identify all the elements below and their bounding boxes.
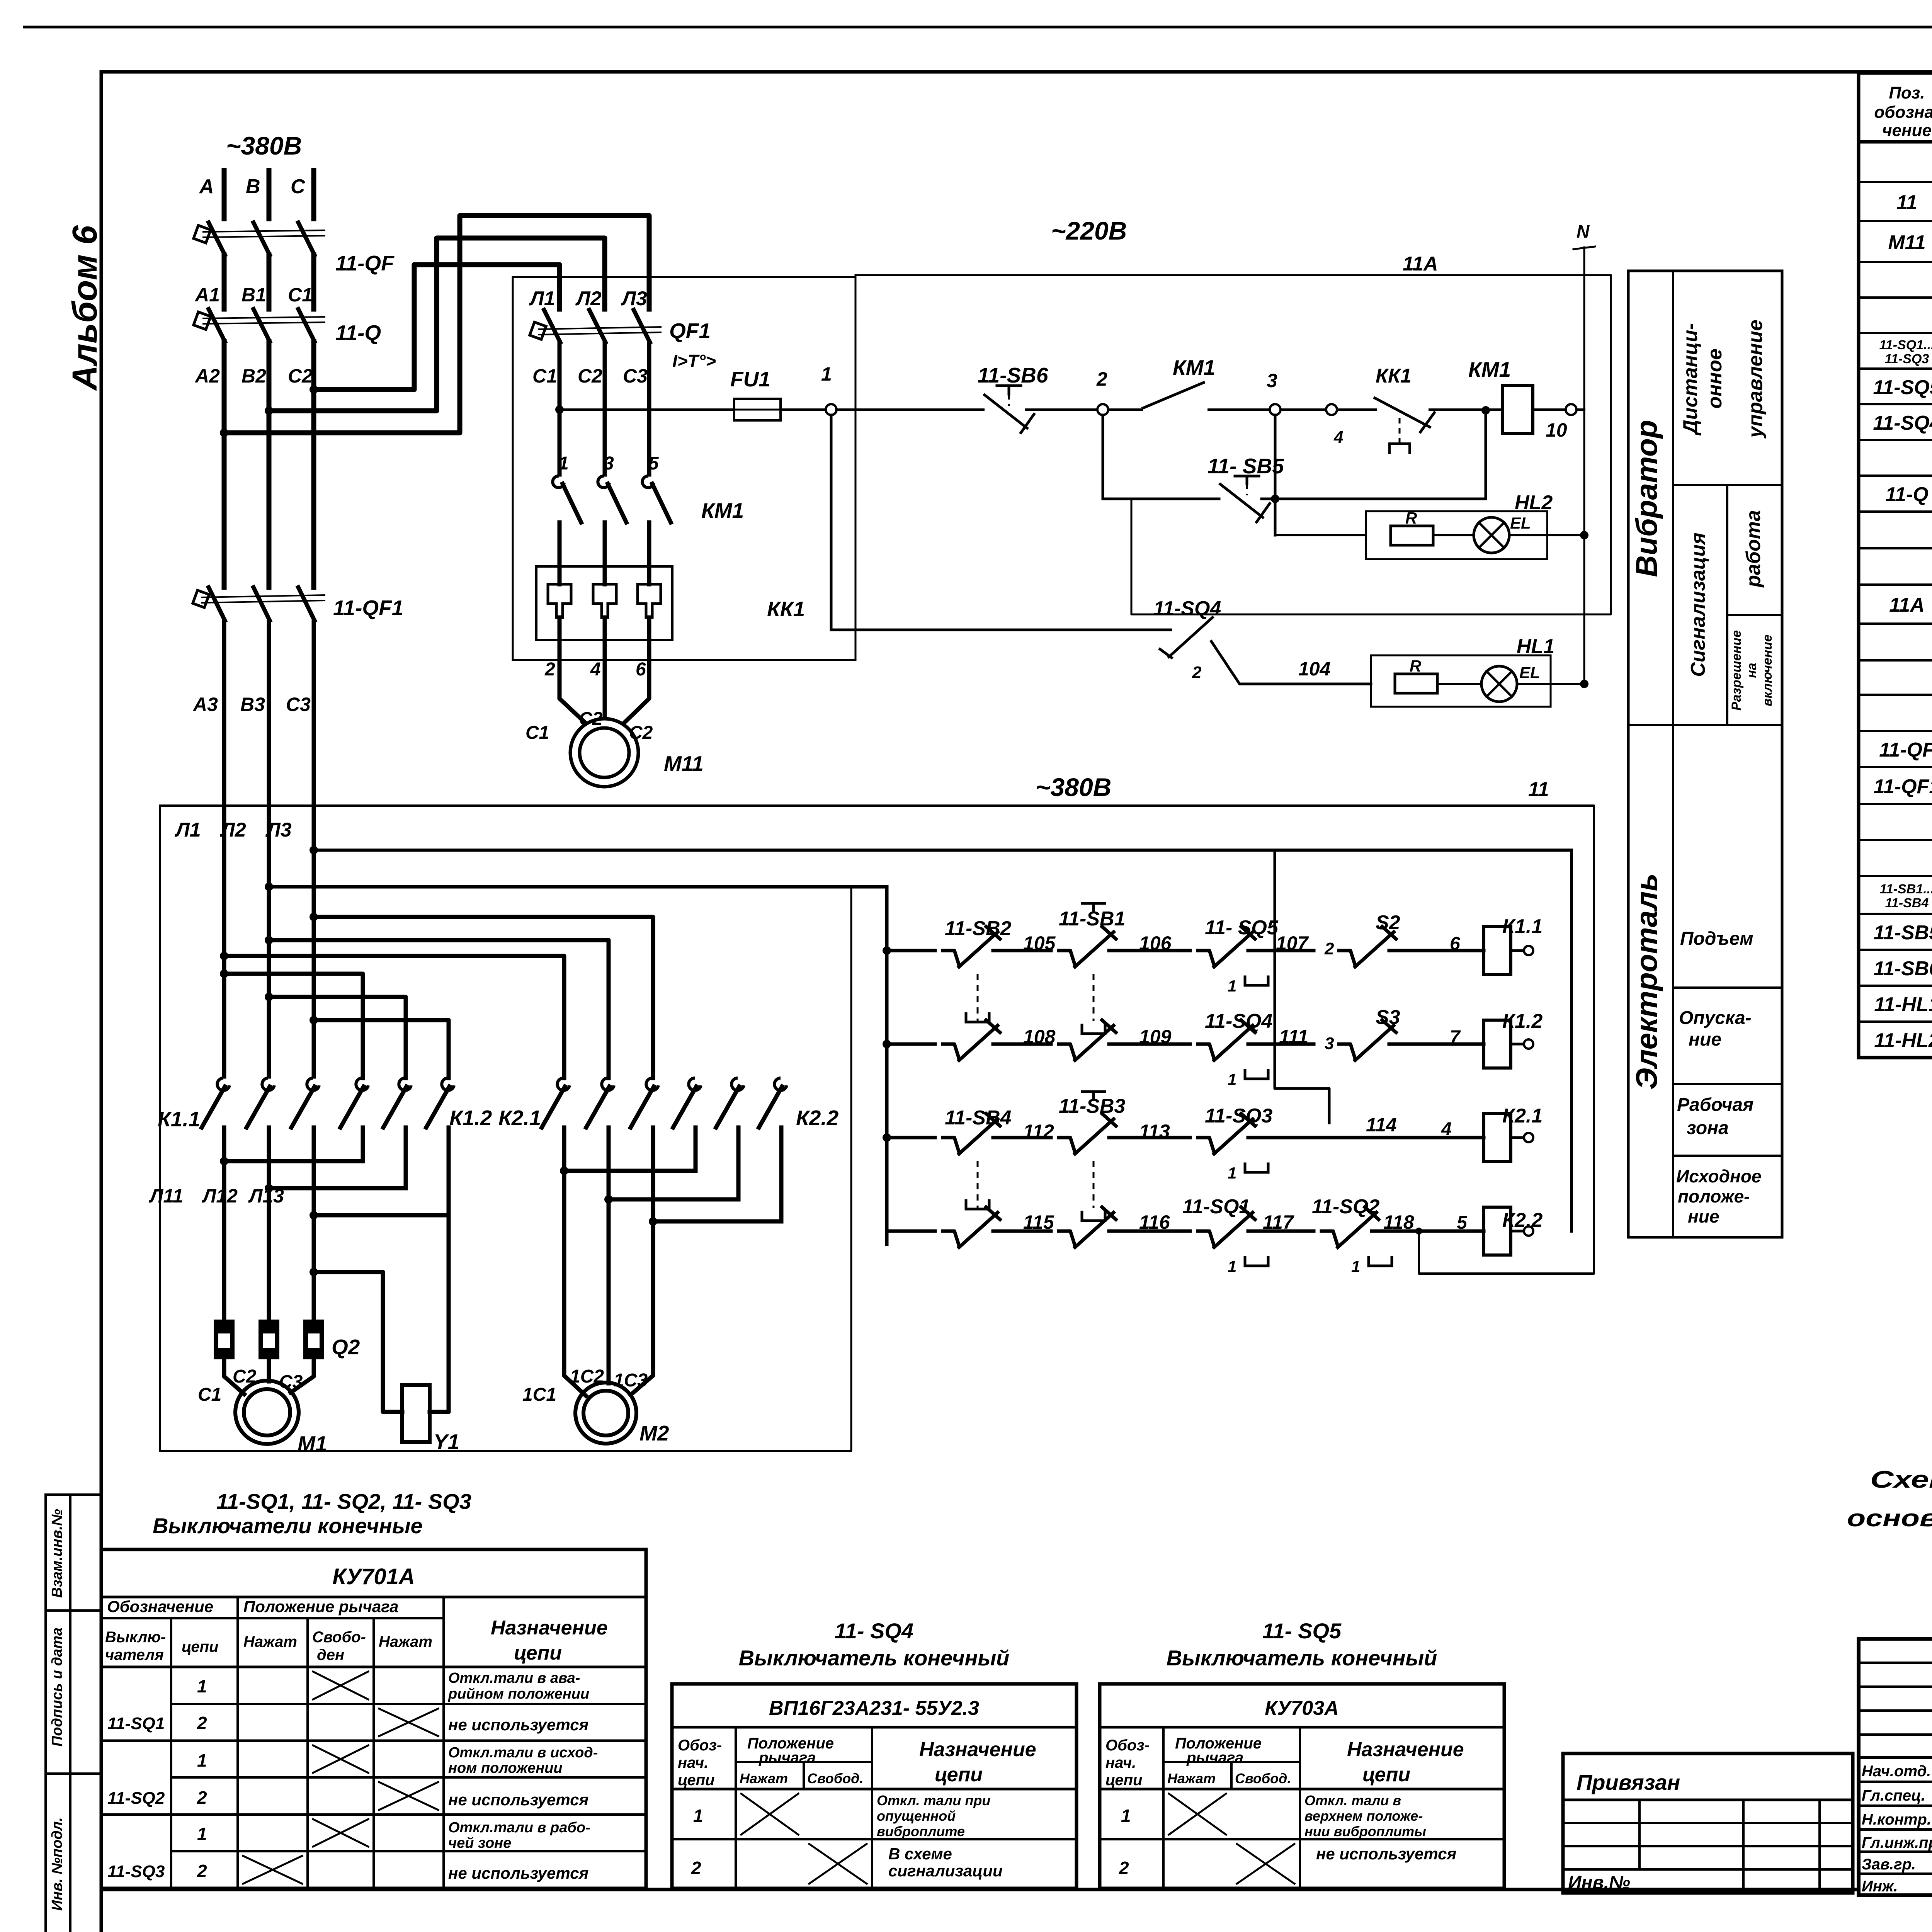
svg-text:11-SB4: 11-SB4 xyxy=(1885,896,1929,910)
svg-text:1: 1 xyxy=(1351,1257,1360,1276)
svg-text:Откл. тали в: Откл. тали в xyxy=(1304,1793,1401,1808)
row3 work zone circuit xyxy=(883,1133,891,1142)
svg-text:11-SQ1: 11-SQ1 xyxy=(1182,1196,1250,1218)
wire FU1 to node 1 xyxy=(781,408,826,411)
button SB3 pole2 xyxy=(1059,1231,1075,1246)
svg-text:цепи: цепи xyxy=(935,1764,983,1786)
svg-text:С1: С1 xyxy=(532,365,557,387)
svg-text:Откл.тали в ава-: Откл.тали в ава- xyxy=(448,1670,580,1686)
sheet top border line xyxy=(24,26,1932,29)
wire 114 to coil K2.1 xyxy=(1260,1136,1484,1139)
resistor R of HL2 xyxy=(1391,526,1433,545)
limit switch 11-SQ3 xyxy=(1198,1138,1214,1152)
svg-text:~380В: ~380В xyxy=(1036,773,1111,801)
function table grid xyxy=(1628,271,1782,1237)
svg-text:Л2: Л2 xyxy=(575,287,602,310)
svg-text:включение: включение xyxy=(1760,634,1775,706)
table KU701A crosses xyxy=(313,1672,368,1699)
svg-text:S3: S3 xyxy=(1376,1006,1400,1029)
svg-text:11А: 11А xyxy=(1889,594,1925,616)
svg-text:В2: В2 xyxy=(241,365,266,387)
junction FU1 tap xyxy=(555,405,564,414)
svg-text:11-SQ3: 11-SQ3 xyxy=(1205,1105,1272,1127)
merge wires under K1 contacts xyxy=(361,1128,365,1161)
resistor R of HL1 xyxy=(1395,674,1437,693)
svg-text:В схеме: В схеме xyxy=(888,1845,952,1863)
svg-text:1: 1 xyxy=(1228,1257,1236,1276)
wire A1 B1 C1 xyxy=(222,255,227,309)
panel Shch4 box xyxy=(513,277,855,660)
svg-text:Выключатели конечные: Выключатели конечные xyxy=(153,1514,423,1538)
contactor K1.2 contacts xyxy=(356,1078,368,1090)
button 11-SB3 xyxy=(1059,1138,1075,1152)
svg-text:М11: М11 xyxy=(664,752,704,776)
svg-text:Гл.спец.: Гл.спец. xyxy=(1862,1787,1925,1804)
node 10 xyxy=(1566,404,1577,415)
svg-text:116: 116 xyxy=(1139,1211,1170,1233)
svg-text:Инв. №подл.: Инв. №подл. xyxy=(49,1817,65,1911)
svg-text:11-SQ2: 11-SQ2 xyxy=(107,1789,165,1808)
svg-text:Обозначение: Обозначение xyxy=(107,1597,213,1616)
svg-text:QF1: QF1 xyxy=(669,319,711,343)
svg-text:11-SQ1: 11-SQ1 xyxy=(107,1714,165,1733)
limit switch 11-SQ4 contact xyxy=(1169,617,1213,657)
parts table grid xyxy=(1859,73,1932,1058)
svg-text:М2: М2 xyxy=(639,1421,669,1445)
svg-text:ден: ден xyxy=(317,1646,344,1663)
svg-text:В1: В1 xyxy=(241,284,266,306)
svg-text:КУ703А: КУ703А xyxy=(1265,1697,1339,1719)
svg-text:N: N xyxy=(1577,221,1590,241)
svg-text:11- SQ4: 11- SQ4 xyxy=(835,1619,913,1643)
svg-text:Гл.инж.пр: Гл.инж.пр xyxy=(1862,1834,1932,1851)
svg-text:113: 113 xyxy=(1139,1121,1170,1142)
wires K2 to motor M2 xyxy=(564,1171,586,1396)
tap to contactor K2.1 pole3 xyxy=(310,913,318,921)
parts table rows text xyxy=(1873,147,1932,1052)
svg-text:Свобо-: Свобо- xyxy=(312,1629,366,1646)
svg-text:не используется: не используется xyxy=(448,1791,588,1809)
wire to FU1 xyxy=(560,408,734,411)
branch SQ4 signal xyxy=(830,415,833,630)
fuse FU1 xyxy=(734,399,781,420)
svg-text:Зав.гр.: Зав.гр. xyxy=(1862,1856,1916,1873)
svg-text:Нач.отд.: Нач.отд. xyxy=(1862,1763,1931,1780)
tap to contactor K2.1 pole1 xyxy=(220,952,228,960)
svg-text:верхнем положе-: верхнем положе- xyxy=(1304,1808,1423,1824)
svg-text:11-SB6: 11-SB6 xyxy=(978,363,1048,387)
svg-text:Нажат: Нажат xyxy=(740,1770,788,1786)
buttons supply bus xyxy=(265,883,273,891)
taps to contactor K1.2 poles xyxy=(220,969,228,978)
svg-text:1: 1 xyxy=(1228,1070,1236,1088)
svg-text:3: 3 xyxy=(604,453,614,474)
tap to contactor K2.1 pole2 xyxy=(265,936,273,944)
svg-text:1: 1 xyxy=(558,453,569,474)
svg-text:11-SQ4: 11-SQ4 xyxy=(1153,597,1221,620)
svg-text:11-SQ4: 11-SQ4 xyxy=(1205,1010,1272,1032)
wire HL2 to N xyxy=(1509,534,1584,536)
lamp box HL1 xyxy=(1371,655,1551,707)
branch SB5 xyxy=(1102,415,1104,499)
svg-text:на: на xyxy=(1745,663,1759,678)
svg-text:С2: С2 xyxy=(629,723,653,743)
svg-text:1: 1 xyxy=(197,1676,207,1696)
svg-text:ние: ние xyxy=(1689,1029,1721,1050)
svg-text:2: 2 xyxy=(197,1787,207,1808)
svg-text:11: 11 xyxy=(1528,778,1549,801)
svg-text:11-SB1...: 11-SB1... xyxy=(1879,882,1932,896)
table Privyazan grid xyxy=(1563,1753,1853,1893)
button 11-SB1 row1 xyxy=(1059,951,1075,965)
wire staircase A2 to L3 xyxy=(224,216,649,433)
svg-text:Л1: Л1 xyxy=(529,287,555,310)
svg-text:11-Q: 11-Q xyxy=(335,321,381,345)
wire 7 to coil K1.2 xyxy=(1401,1043,1484,1046)
svg-text:11-SB2: 11-SB2 xyxy=(945,917,1012,940)
svg-text:5: 5 xyxy=(648,453,659,474)
svg-text:10: 10 xyxy=(1546,419,1567,441)
svg-text:виброплите: виброплите xyxy=(877,1823,965,1839)
svg-text:рычага: рычага xyxy=(1186,1749,1243,1766)
limit switch 11-SQ5 row1 xyxy=(1198,951,1214,965)
svg-text:КМ1: КМ1 xyxy=(1173,355,1215,379)
svg-text:Л13: Л13 xyxy=(248,1185,284,1207)
svg-text:К1.2: К1.2 xyxy=(1502,1010,1543,1032)
wire staircase B2 to L2 xyxy=(269,238,605,411)
svg-text:опущенной: опущенной xyxy=(877,1808,956,1824)
node 1 xyxy=(826,404,837,415)
svg-text:Подпись и дата: Подпись и дата xyxy=(49,1628,65,1747)
tap to coil return bus xyxy=(310,846,318,854)
svg-text:Выклю-: Выклю- xyxy=(105,1629,166,1646)
breaker QF1 xyxy=(544,310,560,342)
contactor K1.1 contacts xyxy=(217,1078,230,1090)
svg-text:Обоз-: Обоз- xyxy=(1105,1737,1150,1754)
svg-text:11А: 11А xyxy=(1403,253,1438,275)
svg-text:11-SB4: 11-SB4 xyxy=(945,1107,1012,1129)
motor M1 xyxy=(235,1381,299,1444)
svg-text:1: 1 xyxy=(197,1824,207,1844)
svg-text:К2.2: К2.2 xyxy=(1502,1209,1543,1231)
svg-text:рычага: рычага xyxy=(759,1749,816,1766)
svg-text:R: R xyxy=(1405,509,1417,527)
svg-text:11-QF: 11-QF xyxy=(335,251,395,275)
svg-text:М11: М11 xyxy=(1888,231,1925,254)
svg-text:11-Q: 11-Q xyxy=(1885,483,1929,506)
wire 6 to coil K1.1 xyxy=(1401,949,1484,952)
svg-text:Схема управления электроталь: Схема управления электроталью выполнена … xyxy=(1870,1466,1932,1493)
svg-text:Назначение: Назначение xyxy=(1347,1738,1464,1761)
wire 115 xyxy=(1005,1230,1051,1233)
wires fuses to motor M1 xyxy=(224,1359,244,1394)
button 11-SB4 xyxy=(943,1138,959,1152)
svg-text:11-SQ2: 11-SQ2 xyxy=(1312,1196,1379,1218)
svg-text:С3: С3 xyxy=(286,694,311,715)
svg-text:Дистанци-: Дистанци- xyxy=(1679,323,1702,435)
svg-text:1: 1 xyxy=(1121,1806,1131,1826)
svg-text:Инв.№: Инв.№ xyxy=(1568,1872,1630,1893)
phase wires into cabinet xyxy=(222,622,226,1077)
inner frame left line xyxy=(100,72,103,1932)
wire 111 xyxy=(1260,1043,1314,1046)
svg-text:6: 6 xyxy=(636,659,646,680)
svg-text:цепи: цепи xyxy=(678,1772,714,1789)
button SB4 pole2 xyxy=(943,1231,959,1246)
svg-text:114: 114 xyxy=(1366,1114,1397,1136)
wire 107 xyxy=(1260,949,1314,952)
svg-text:106: 106 xyxy=(1139,932,1172,954)
row2 hoist down circuit xyxy=(883,1040,891,1048)
wire distance control link xyxy=(1275,850,1329,1123)
wire staircase C2 to L1 xyxy=(314,265,560,389)
svg-text:11-SQ3: 11-SQ3 xyxy=(1885,352,1929,366)
svg-text:Сигнализация: Сигнализация xyxy=(1687,532,1709,677)
svg-text:цепи: цепи xyxy=(182,1638,218,1655)
svg-text:Назначение: Назначение xyxy=(919,1738,1036,1761)
svg-text:К1.2: К1.2 xyxy=(449,1106,492,1130)
svg-text:2: 2 xyxy=(1096,368,1107,390)
svg-text:Л1: Л1 xyxy=(174,819,201,841)
svg-text:С2: С2 xyxy=(578,365,602,387)
wire 113 xyxy=(1121,1136,1190,1139)
svg-text:4: 4 xyxy=(1441,1119,1452,1139)
button 11-SB6 xyxy=(836,408,983,411)
wire 118 to coil K2.2 xyxy=(1383,1230,1484,1233)
svg-text:2: 2 xyxy=(1324,939,1334,958)
svg-text:11-SB6: 11-SB6 xyxy=(1874,957,1932,980)
svg-text:11-QF: 11-QF xyxy=(1879,739,1932,761)
svg-text:нач.: нач. xyxy=(1105,1754,1136,1771)
svg-text:1С3: 1С3 xyxy=(614,1370,648,1391)
svg-text:118: 118 xyxy=(1383,1211,1414,1233)
svg-text:С1: С1 xyxy=(288,284,313,306)
svg-text:С3: С3 xyxy=(623,365,648,387)
svg-text:зона: зона xyxy=(1687,1118,1729,1138)
node N terminal xyxy=(1583,247,1585,684)
svg-text:В: В xyxy=(246,175,260,198)
svg-text:С1: С1 xyxy=(198,1384,221,1405)
svg-text:11-SB3: 11-SB3 xyxy=(1059,1095,1126,1117)
wires to motor M11 xyxy=(560,640,584,722)
svg-text:11- SB5: 11- SB5 xyxy=(1207,454,1284,478)
svg-text:КК1: КК1 xyxy=(1376,365,1412,387)
svg-text:Инж.: Инж. xyxy=(1862,1878,1898,1895)
wire HL1 to N xyxy=(1517,683,1584,685)
contactor K2.1 contacts xyxy=(557,1078,570,1090)
node 3 xyxy=(1270,404,1281,415)
contact KM1 aux xyxy=(1108,408,1142,411)
button SB1 pole2 xyxy=(1059,1044,1075,1059)
svg-text:5: 5 xyxy=(1457,1213,1468,1233)
svg-text:К2.1: К2.1 xyxy=(1502,1105,1543,1127)
wire node10 to N xyxy=(1577,408,1584,411)
table KU701A grid xyxy=(101,1549,646,1888)
svg-text:3: 3 xyxy=(1267,370,1277,391)
svg-text:Выключатель конечный: Выключатель конечный xyxy=(1167,1646,1437,1670)
contactor K2.2 contacts xyxy=(689,1078,701,1090)
wire 109 xyxy=(1121,1043,1190,1046)
parts table header xyxy=(1874,83,1932,140)
svg-text:7: 7 xyxy=(1450,1027,1461,1048)
svg-text:не используется: не используется xyxy=(1316,1845,1456,1863)
bottom tables baseline xyxy=(101,1888,1859,1891)
svg-text:работа: работа xyxy=(1742,510,1765,588)
wire 116 xyxy=(1121,1230,1190,1233)
svg-text:6: 6 xyxy=(1450,934,1460,954)
svg-text:Разрешение: Разрешение xyxy=(1729,630,1744,711)
svg-text:Y1: Y1 xyxy=(434,1430,459,1454)
svg-text:Привязан: Привязан xyxy=(1577,1770,1680,1794)
button SB2 pole2 xyxy=(943,1044,959,1059)
svg-text:Исходное: Исходное xyxy=(1676,1166,1762,1186)
svg-text:основании чертежа Т355133 Харь: основании чертежа Т355133 Харьковского з… xyxy=(1847,1505,1932,1532)
svg-text:115: 115 xyxy=(1023,1211,1054,1233)
switch 11-QF xyxy=(209,223,225,255)
table 11- SQ4 grid xyxy=(672,1684,1077,1888)
cabinet box outline xyxy=(160,806,851,1451)
svg-text:3: 3 xyxy=(1325,1034,1334,1053)
svg-text:положе-: положе- xyxy=(1678,1186,1750,1206)
function table labels xyxy=(1629,320,1775,1226)
svg-text:Положение рычага: Положение рычага xyxy=(243,1597,398,1616)
svg-text:Л11: Л11 xyxy=(149,1185,183,1207)
svg-text:не используется: не используется xyxy=(448,1716,588,1734)
wire 112 xyxy=(1005,1136,1051,1139)
wire coil to node 10 xyxy=(1533,408,1566,411)
breaker 11-QF1 xyxy=(209,587,225,621)
left margin column boxes xyxy=(46,1495,101,1932)
row4 home position circuit xyxy=(887,1138,935,1231)
selector S2 xyxy=(1339,951,1355,965)
svg-text:С3: С3 xyxy=(279,1372,303,1392)
svg-text:КМ1: КМ1 xyxy=(1468,357,1511,381)
svg-text:EL: EL xyxy=(1510,514,1531,532)
svg-text:обозна-: обозна- xyxy=(1874,103,1932,122)
svg-text:HL2: HL2 xyxy=(1515,492,1553,514)
wire A2 B2 C2 down xyxy=(222,342,227,587)
motor M2 xyxy=(575,1383,636,1444)
svg-text:управление: управление xyxy=(1744,320,1767,439)
junction taps to QF1 xyxy=(310,385,318,394)
svg-text:Выключатель конечный: Выключатель конечный xyxy=(739,1646,1010,1670)
wire QF1 outputs down xyxy=(558,342,562,474)
svg-text:2: 2 xyxy=(197,1861,207,1881)
svg-text:1С2: 1С2 xyxy=(570,1366,604,1387)
limit switch 11-SQ2 xyxy=(1321,1231,1338,1246)
svg-text:ном положении: ном положении xyxy=(448,1760,563,1776)
svg-text:11-HL2: 11-HL2 xyxy=(1874,1029,1932,1052)
svg-text:К1.1: К1.1 xyxy=(158,1107,200,1131)
svg-text:Электроталь: Электроталь xyxy=(1629,873,1663,1090)
svg-text:К1.1: К1.1 xyxy=(1502,915,1543,938)
svg-text:В3: В3 xyxy=(240,694,265,715)
svg-text:105: 105 xyxy=(1023,932,1056,954)
fuses Q2 xyxy=(214,1320,235,1359)
svg-text:11-SQ1...: 11-SQ1... xyxy=(1879,338,1932,352)
wire 105 xyxy=(1005,949,1051,952)
lamp box HL2 xyxy=(1366,511,1547,559)
svg-text:чателя: чателя xyxy=(105,1646,164,1663)
svg-text:ВП16Г23А231- 55У2.3: ВП16Г23А231- 55У2.3 xyxy=(769,1697,979,1719)
svg-text:Обоз-: Обоз- xyxy=(678,1737,722,1754)
svg-text:11-SB5: 11-SB5 xyxy=(1874,922,1932,944)
title block outer frame xyxy=(1859,1639,1932,1895)
node 4 xyxy=(1281,408,1325,411)
svg-text:EL: EL xyxy=(1519,663,1540,682)
svg-text:Н.контр.: Н.контр. xyxy=(1862,1811,1931,1828)
svg-text:Альбом 6: Альбом 6 xyxy=(66,225,104,391)
panel outline right extension xyxy=(855,275,1611,614)
svg-text:рийном положении: рийном положении xyxy=(448,1686,589,1702)
svg-text:сигнализации: сигнализации xyxy=(888,1862,1003,1880)
svg-text:Взам.инв.№: Взам.инв.№ xyxy=(49,1509,65,1598)
lamp EL of HL1 xyxy=(1437,683,1481,685)
wire 108 xyxy=(1005,1043,1051,1046)
merge wires under K2 contacts xyxy=(562,1128,566,1171)
svg-text:Поз.: Поз. xyxy=(1889,83,1925,102)
svg-text:С1: С1 xyxy=(526,723,549,743)
selector S3 xyxy=(1339,1044,1355,1059)
limit switch 11-SQ1 xyxy=(1198,1231,1214,1246)
svg-text:R: R xyxy=(1410,657,1422,675)
svg-text:11-SQ3: 11-SQ3 xyxy=(107,1862,165,1881)
svg-text:107: 107 xyxy=(1276,932,1309,954)
svg-text:Нажат: Нажат xyxy=(1167,1770,1216,1786)
svg-text:нач.: нач. xyxy=(678,1754,708,1771)
svg-text:нии виброплиты: нии виброплиты xyxy=(1304,1823,1426,1839)
svg-text:11-SQ5: 11-SQ5 xyxy=(1873,376,1932,399)
svg-text:I>T°>: I>T°> xyxy=(672,351,716,371)
table 11- SQ5 grid xyxy=(1100,1684,1504,1888)
svg-text:не используется: не используется xyxy=(448,1864,588,1882)
svg-text:А2: А2 xyxy=(194,365,220,387)
coil KM1 xyxy=(1430,408,1503,411)
svg-text:цепи: цепи xyxy=(1362,1764,1410,1786)
bus A B C stubs xyxy=(222,170,227,219)
wire 106 xyxy=(1121,949,1190,952)
svg-text:11- SQ5: 11- SQ5 xyxy=(1262,1619,1342,1643)
svg-text:КМ1: КМ1 xyxy=(701,498,744,522)
svg-text:11-HL1: 11-HL1 xyxy=(1874,993,1932,1016)
svg-text:С: С xyxy=(291,175,306,198)
svg-text:2: 2 xyxy=(197,1713,207,1733)
svg-text:11-SQ1, 11- SQ2, 11- SQ3: 11-SQ1, 11- SQ2, 11- SQ3 xyxy=(216,1489,471,1514)
svg-text:11-SB1: 11-SB1 xyxy=(1059,908,1125,930)
wire SB6 to node 2 xyxy=(1026,408,1097,411)
svg-text:1: 1 xyxy=(693,1806,703,1826)
coil K2.2 xyxy=(1484,1207,1511,1255)
svg-text:Откл. тали при: Откл. тали при xyxy=(877,1793,990,1808)
svg-text:Рабочая: Рабочая xyxy=(1677,1095,1753,1115)
svg-text:А1: А1 xyxy=(194,284,220,306)
svg-text:FU1: FU1 xyxy=(730,367,770,391)
svg-text:2: 2 xyxy=(544,659,555,680)
coil K1.2 xyxy=(1484,1020,1511,1068)
svg-text:С2: С2 xyxy=(579,709,603,729)
svg-text:11- SQ5: 11- SQ5 xyxy=(1205,917,1279,939)
svg-text:Откл.тали в рабо-: Откл.тали в рабо- xyxy=(448,1820,590,1836)
svg-text:Откл.тали в исход-: Откл.тали в исход- xyxy=(448,1745,598,1761)
svg-text:М1: М1 xyxy=(298,1432,327,1456)
svg-text:1С1: 1С1 xyxy=(522,1384,556,1405)
svg-text:4: 4 xyxy=(590,659,601,680)
svg-text:Q2: Q2 xyxy=(332,1335,360,1359)
svg-text:Л12: Л12 xyxy=(202,1185,238,1207)
svg-text:КК1: КК1 xyxy=(767,597,805,621)
coil K2.1 xyxy=(1484,1114,1511,1162)
svg-text:цепи: цепи xyxy=(1105,1772,1142,1789)
